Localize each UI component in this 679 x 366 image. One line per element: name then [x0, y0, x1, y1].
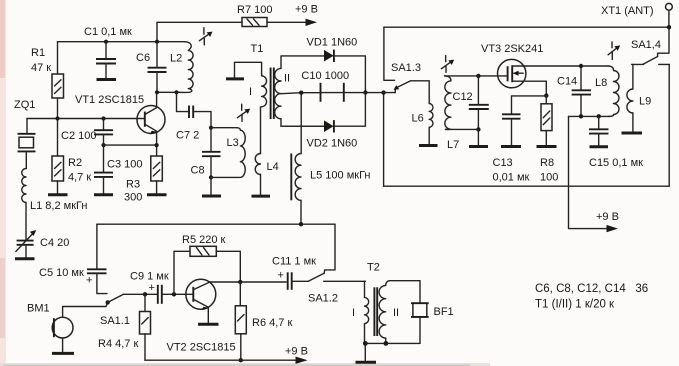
node R5/R6	[238, 280, 242, 284]
resistor R4	[98, 294, 151, 360]
ground L6	[419, 144, 438, 147]
capacitor C15	[589, 116, 643, 169]
transformer T1 secondary II	[275, 56, 324, 126]
capacitor C1	[84, 26, 132, 78]
switch SA1.3	[384, 62, 421, 93]
earphone BF1	[411, 303, 454, 343]
node C2 top	[101, 116, 105, 120]
capacitor C3	[94, 145, 142, 193]
svg-text:L2: L2	[170, 53, 182, 65]
shield box left edge upper	[384, 27, 395, 80]
ground VT2 emitter	[198, 323, 219, 326]
node R4 top	[143, 292, 147, 296]
svg-text:C15 0,1 мк: C15 0,1 мк	[589, 157, 643, 169]
wire tank top to gate	[445, 75, 507, 77]
svg-text:R6 4,7 к: R6 4,7 к	[252, 317, 292, 329]
+9V arrow bottom	[285, 346, 308, 364]
node L5 bottom	[299, 222, 303, 226]
core T1	[271, 68, 274, 120]
svg-text:C10 1000: C10 1000	[301, 70, 349, 82]
svg-text:L6: L6	[412, 113, 424, 125]
switch SA1.1	[100, 294, 130, 327]
wire VT1 base line	[27, 118, 144, 120]
ground stub T1 primary	[226, 77, 244, 80]
inductor L7	[445, 76, 460, 151]
ground C13	[501, 145, 521, 148]
diode VD1	[307, 37, 366, 93]
transformer T2 secondary II	[379, 281, 399, 344]
node C12 bottom	[476, 127, 480, 131]
svg-text:C3 100: C3 100	[107, 159, 142, 171]
transistor VT2	[167, 279, 236, 353]
capacitor C6	[136, 42, 167, 93]
resistor R6	[235, 282, 292, 360]
inductor L1	[22, 169, 88, 241]
node source	[544, 93, 548, 97]
ground C3	[94, 193, 113, 196]
ground L4	[252, 195, 271, 198]
svg-text:XT1 (ANT): XT1 (ANT)	[601, 5, 654, 17]
svg-text:SA1,4: SA1,4	[631, 39, 661, 51]
svg-text:C8: C8	[191, 165, 205, 177]
svg-text:C6, C8, C12, C14 36: C6, C8, C12, C14 36	[535, 283, 648, 295]
shield box right edge	[668, 64, 670, 186]
svg-text:C4 20: C4 20	[40, 237, 69, 249]
svg-text:T2: T2	[367, 262, 380, 274]
+9V arrow right	[596, 211, 619, 232]
transistor VT1	[75, 92, 165, 156]
wire +9V bottom rail	[145, 359, 297, 361]
wire detector to box	[365, 92, 383, 94]
ground T2	[356, 343, 377, 362]
wire collector supply line y=41.7	[58, 41, 185, 43]
svg-text:47 к: 47 к	[31, 62, 51, 74]
svg-text:C2 100: C2 100	[61, 130, 96, 142]
inductor L4	[255, 107, 279, 195]
svg-text:C14: C14	[557, 76, 577, 88]
+9V arrow top	[267, 4, 318, 26]
trimmer arrow L3/L4	[237, 104, 250, 121]
terminal XT1 antenna	[601, 3, 672, 27]
svg-text:L5 100 мкГн: L5 100 мкГн	[310, 170, 371, 182]
ground R8	[537, 145, 557, 148]
wire T2 bottom line	[365, 342, 421, 344]
svg-text:T1 (I/II) 1 к/20 к: T1 (I/II) 1 к/20 к	[535, 299, 615, 311]
notes text	[535, 283, 648, 311]
ground R3	[147, 193, 167, 196]
resistor R3	[124, 156, 162, 204]
ground C1	[97, 78, 117, 81]
resistor R5	[174, 234, 240, 294]
svg-text:I: I	[249, 86, 252, 98]
svg-text:C6: C6	[136, 52, 150, 64]
node drain/C14	[579, 64, 583, 68]
svg-text:ZQ1: ZQ1	[14, 99, 35, 111]
svg-text:VT2 2SC1815: VT2 2SC1815	[167, 342, 236, 354]
ground C4	[15, 257, 35, 260]
inductor L8	[595, 66, 619, 116]
capacitor C11	[272, 256, 316, 290]
wire tank bottom to collector node	[157, 91, 180, 93]
svg-text:R3: R3	[126, 179, 140, 191]
node C8/L3 bottom	[209, 175, 213, 179]
node C12 top	[476, 74, 480, 78]
transformer T1 primary I	[235, 43, 267, 107]
node R1 bottom	[55, 116, 59, 120]
wire +9V feed into box	[569, 116, 611, 228]
svg-text:+: +	[86, 275, 92, 287]
node C15 top	[597, 114, 601, 118]
diode VD2	[281, 93, 365, 150]
node T2 secondary bottom	[384, 341, 389, 346]
shield box left edge lower	[383, 93, 385, 187]
svg-text:T1: T1	[251, 43, 264, 55]
node R5 left	[172, 292, 176, 296]
trimmer arrow L8	[608, 42, 620, 60]
wire C14/C15/L8 bottom line	[569, 115, 611, 117]
trimmer arrow L7	[441, 56, 454, 73]
capacitor C9	[130, 271, 193, 304]
wire C8 ground stem	[210, 177, 212, 194]
svg-text:SA1.1: SA1.1	[100, 315, 130, 327]
ground BM1	[52, 352, 74, 355]
node C14 bottom	[579, 114, 583, 118]
resistor R2	[52, 119, 91, 194]
svg-text:R1: R1	[31, 47, 45, 59]
svg-text:SA1.2: SA1.2	[308, 293, 338, 305]
node supply/tank	[155, 40, 159, 44]
svg-text:300: 300	[124, 192, 142, 204]
svg-text:4,7 к: 4,7 к	[68, 172, 91, 184]
inductor L6	[411, 81, 433, 144]
svg-text:+: +	[278, 270, 284, 282]
wire L7 bottom	[446, 129, 479, 145]
switch SA1.4	[631, 27, 669, 64]
svg-text:C12: C12	[453, 91, 473, 103]
svg-text:R8: R8	[540, 157, 554, 169]
wire source to C13	[512, 96, 547, 114]
node C1 top	[104, 40, 108, 44]
shield box bottom edge	[384, 185, 670, 187]
ground C12/L7	[469, 145, 488, 148]
wire VT2 collector line	[210, 281, 286, 283]
switch SA1.2	[308, 224, 365, 304]
crystal ZQ1	[14, 99, 36, 169]
resistor R7	[237, 4, 272, 27]
ground R2	[48, 193, 68, 196]
svg-text:VD2 1N60: VD2 1N60	[307, 138, 358, 150]
node tank bottom	[155, 90, 159, 94]
svg-text:VD1 1N60: VD1 1N60	[307, 37, 358, 49]
capacitor C12	[453, 76, 489, 129]
inductor L5 with core	[291, 93, 370, 225]
capacitor C2	[61, 119, 113, 146]
svg-text:VT3 2SK241: VT3 2SK241	[481, 43, 543, 55]
svg-text:R7 100: R7 100	[237, 4, 272, 16]
wire VT3 drain	[526, 65, 608, 67]
svg-text:R2: R2	[68, 157, 82, 169]
svg-text:C13: C13	[493, 157, 513, 169]
node C2 bottom	[101, 143, 105, 147]
svg-text:100: 100	[540, 172, 558, 184]
node C10/L5	[299, 91, 303, 95]
inductor L3	[211, 128, 245, 178]
wire audio feedback line	[97, 223, 335, 225]
wire T2 secondary top to BF1	[390, 281, 421, 303]
svg-text:C11 1 мк: C11 1 мк	[272, 256, 316, 268]
capacitor C13	[493, 114, 530, 183]
svg-text:+9 В: +9 В	[596, 211, 619, 223]
transistor VT3	[481, 43, 546, 88]
svg-text:L1 8,2 мкГн: L1 8,2 мкГн	[30, 200, 87, 212]
svg-text:R5 220 к: R5 220 к	[182, 234, 226, 246]
capacitor C4 variable	[16, 230, 70, 257]
wire C2 to emitter	[104, 144, 157, 146]
transformer T2 primary I	[352, 262, 380, 344]
resistor R1	[31, 42, 64, 119]
svg-text:C7 2: C7 2	[176, 130, 199, 142]
svg-text:+: +	[149, 282, 155, 294]
svg-text:II: II	[393, 307, 399, 319]
svg-text:C9 1 мк: C9 1 мк	[130, 271, 169, 283]
svg-text:C5 10 мк: C5 10 мк	[39, 267, 84, 279]
wire top supply rail y=22	[157, 22, 242, 41]
core T2	[374, 287, 377, 336]
svg-text:+9 В: +9 В	[295, 4, 318, 16]
svg-text:I: I	[352, 307, 355, 319]
svg-text:L8: L8	[595, 77, 607, 89]
node emitter	[155, 143, 159, 147]
resistor R8	[540, 104, 558, 184]
node T2 primary bottom	[363, 341, 368, 346]
inductor L9	[627, 64, 651, 131]
ground C15	[590, 145, 609, 148]
capacitor C8	[191, 128, 221, 178]
capacitor C14	[557, 66, 591, 116]
trimmer arrow L2	[199, 28, 212, 45]
node C7 branch	[174, 90, 178, 94]
ground L9	[622, 132, 643, 135]
svg-text:II: II	[284, 73, 290, 85]
capacitor C10	[301, 70, 365, 102]
svg-text:0,01 мк: 0,01 мк	[493, 172, 530, 184]
svg-text:L4: L4	[267, 161, 279, 173]
capacitor C7	[176, 92, 211, 141]
svg-text:BM1: BM1	[27, 303, 50, 315]
microphone BM1	[27, 302, 108, 352]
svg-text:VT1 2SC1815: VT1 2SC1815	[75, 94, 144, 106]
shield box top edge / antenna line	[384, 26, 669, 28]
svg-text:+9 В: +9 В	[285, 346, 308, 358]
capacitor C5	[39, 224, 107, 293]
svg-text:L3: L3	[227, 137, 239, 149]
svg-text:C1 0,1 мк: C1 0,1 мк	[84, 26, 132, 38]
wire SA1.1 to C9	[124, 293, 157, 295]
svg-text:SA1.3: SA1.3	[391, 62, 421, 74]
node SA1.3 tap	[381, 90, 385, 94]
svg-text:L9: L9	[639, 96, 651, 108]
svg-text:L7: L7	[447, 139, 459, 151]
svg-text:R4 4,7 к: R4 4,7 к	[98, 338, 138, 350]
node C8/L3 top	[209, 126, 213, 130]
svg-text:BF1: BF1	[434, 306, 454, 318]
ground C8	[202, 195, 221, 198]
node detector junction	[363, 90, 367, 94]
wire VT3 source down	[545, 81, 547, 104]
node antenna	[667, 25, 671, 29]
node R6 bottom	[239, 358, 243, 362]
inductor L2	[170, 42, 193, 93]
